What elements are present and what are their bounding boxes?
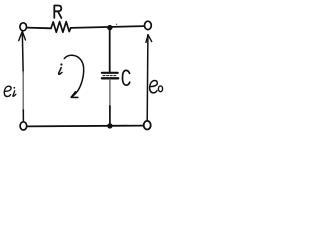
left vertical wire lower <box>22 110 24 122</box>
label eo : cursive e <box>149 81 158 93</box>
wire top-left to resistor <box>27 27 51 30</box>
label eo : subscript o <box>158 86 162 92</box>
capacitor C1 bottom plate <box>102 77 118 79</box>
label ei : cursive e <box>4 86 12 96</box>
capacitor C1 top lead <box>109 28 111 71</box>
label R <box>54 6 61 18</box>
wire resistor to top-right terminal <box>71 26 145 28</box>
speck near top junction <box>116 24 117 25</box>
terminal top-right <box>145 21 152 29</box>
bottom wire <box>27 125 143 128</box>
current loop arrowhead <box>71 92 78 98</box>
junction node top <box>107 25 112 30</box>
current loop arc <box>64 55 83 97</box>
capacitor C1 top plate <box>102 72 118 74</box>
right vertical wire (eo branch) <box>146 35 149 122</box>
arrowhead eo (points up) <box>146 35 152 43</box>
junction node bottom <box>107 123 112 128</box>
terminal bottom-left <box>20 122 27 130</box>
arrowhead ei (points up) <box>19 31 26 40</box>
label ei : subscript i <box>13 87 15 89</box>
resistor R1 <box>51 22 71 33</box>
label C <box>123 70 130 85</box>
capacitor C1 bottom lead faded <box>109 80 111 108</box>
left vertical wire middle (faded) <box>22 72 24 112</box>
capacitor C1 bottom lead <box>109 106 111 126</box>
label i <box>60 63 62 65</box>
capacitor C1 gap dashes <box>103 75 117 77</box>
terminal bottom-right <box>144 121 151 130</box>
left vertical wire upper (ei branch) <box>21 31 24 74</box>
terminal top-left <box>20 23 27 31</box>
